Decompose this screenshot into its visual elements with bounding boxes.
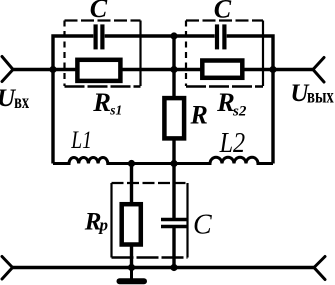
capacitor C (bottom) plates — [161, 220, 187, 227]
wire: center column (top bus to R) — [172, 36, 175, 96]
junction node L-row left — [128, 160, 135, 167]
svg-text:R: R — [92, 87, 111, 117]
svg-text:R: R — [216, 87, 235, 117]
terminal input arrow (top left) — [2, 57, 13, 82]
wire: center column (capacitor C to bottom line) — [172, 227, 175, 268]
wire: main horizontal line (Uvx to Uvyx) — [13, 68, 313, 72]
svg-text:s1: s1 — [109, 103, 122, 118]
terminal arrow (bottom right) — [314, 257, 325, 280]
svg-text:C: C — [193, 209, 212, 240]
junction node at Uvyx output — [269, 66, 276, 73]
resistor Rp body — [122, 204, 141, 244]
wire: top capacitor bus — [53, 36, 273, 70]
wire: Rp branch (L-row to Rp) — [130, 164, 133, 203]
terminal arrow (bottom left) — [2, 257, 13, 280]
wire: left column down to L1 — [51, 70, 54, 164]
resistor Rs2 body — [202, 61, 242, 78]
inductor L1 — [53, 158, 132, 164]
wire: center column (L-row to capacitor C bottom) — [172, 164, 175, 220]
inductor L2 — [174, 157, 273, 163]
junction node L-row center — [170, 160, 177, 167]
junction node at Uvx input — [49, 66, 56, 73]
wire: Rp branch (Rp to bottom line) — [130, 247, 133, 268]
capacitor C (left top) plates — [96, 24, 103, 49]
wire: L-row between junctions — [132, 162, 175, 165]
junction node bottom line left — [128, 264, 135, 271]
svg-text:L1: L1 — [70, 125, 92, 153]
svg-text:p: p — [98, 216, 109, 235]
svg-text:C: C — [90, 0, 108, 23]
terminal output arrow (top right) — [313, 58, 324, 83]
svg-text:s2: s2 — [232, 104, 247, 120]
junction node top center — [170, 32, 177, 39]
capacitor C (right top) plates — [217, 24, 224, 49]
wire: center column (R to L-row) — [172, 141, 175, 164]
svg-text:вх: вх — [14, 89, 29, 112]
wire: bottom horizontal line — [13, 266, 315, 269]
resistor R body — [164, 98, 184, 138]
svg-text:R: R — [190, 100, 208, 129]
svg-text:вых: вых — [307, 84, 334, 107]
junction node main line center — [170, 66, 177, 73]
resistor Rs1 body — [77, 60, 120, 81]
dashed box around C and Rs2 — [186, 21, 263, 87]
svg-text:C: C — [214, 0, 232, 23]
ground — [120, 268, 145, 282]
dashed box around Rp and C — [112, 183, 188, 258]
svg-text:L2: L2 — [219, 126, 245, 158]
dashed box around C and Rs1 — [65, 21, 141, 87]
wire: right column down to L2 — [271, 70, 274, 164]
junction node bottom line center — [170, 264, 177, 271]
